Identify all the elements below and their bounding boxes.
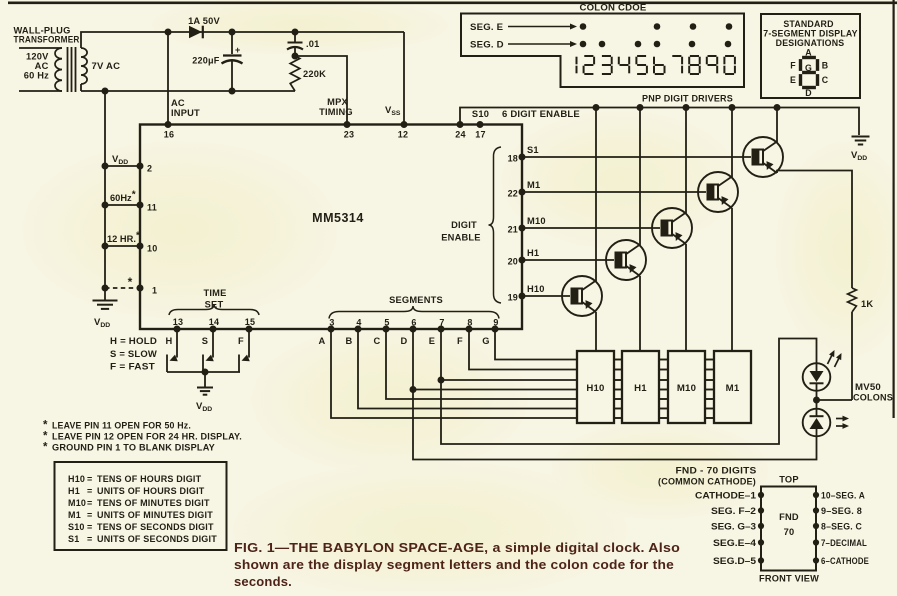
svg-text:UNITS OF SECONDS DIGIT: UNITS OF SECONDS DIGIT bbox=[97, 534, 217, 544]
node rail at M10 driver bbox=[683, 104, 690, 111]
ground time-set bbox=[204, 372, 206, 387]
wire bottom rail VDD bbox=[81, 90, 295, 92]
svg-text:220K: 220K bbox=[303, 69, 326, 79]
pin 11 left bbox=[105, 204, 140, 206]
transistor Q1 H10 PNP digit driver bbox=[562, 276, 602, 316]
pin 5 segment C bbox=[383, 326, 390, 333]
svg-text:FND: FND bbox=[779, 512, 799, 522]
pin 21 digit output M10 bbox=[519, 225, 526, 232]
svg-text:7-SEGMENT DISPLAY: 7-SEGMENT DISPLAY bbox=[763, 29, 857, 39]
FND70 pin left 526 bbox=[758, 523, 764, 529]
svg-text:S10: S10 bbox=[68, 522, 85, 532]
pin 9 segment G bbox=[492, 326, 499, 333]
switch H (time set) bbox=[176, 329, 178, 358]
FND70 pin right 526 bbox=[813, 523, 819, 529]
svg-text:=: = bbox=[87, 510, 92, 520]
svg-text:H10: H10 bbox=[586, 383, 604, 394]
wire M10 emitter to display digit bbox=[685, 244, 687, 351]
node C2/R1/MPX junction bbox=[292, 53, 299, 60]
standard 7-segment designations box bbox=[761, 14, 860, 98]
svg-text:UNITS OF HOURS DIGIT: UNITS OF HOURS DIGIT bbox=[97, 486, 205, 496]
svg-text:4: 4 bbox=[356, 318, 361, 328]
svg-text:TENS OF MINUTES DIGIT: TENS OF MINUTES DIGIT bbox=[97, 498, 210, 508]
svg-text:H10: H10 bbox=[527, 284, 545, 294]
svg-text:MPX: MPX bbox=[327, 97, 348, 107]
switch S (time set) bbox=[212, 329, 214, 358]
svg-text:FND - 70 DIGITS: FND - 70 DIGITS bbox=[676, 466, 757, 476]
FND70 pin right 560.5 bbox=[813, 557, 819, 563]
resistor R2 1K bbox=[848, 288, 857, 312]
svg-text:*: * bbox=[128, 275, 133, 289]
svg-text:COLON CDOE: COLON CDOE bbox=[579, 3, 646, 14]
svg-text:TIMING: TIMING bbox=[319, 107, 353, 117]
pin 15 time-set bbox=[246, 326, 253, 333]
pin 22 digit output M1 bbox=[519, 189, 526, 196]
wire H1 emitter to display digit bbox=[639, 276, 641, 351]
FND70 pin right 495 bbox=[813, 492, 819, 498]
svg-text:TOP: TOP bbox=[779, 475, 799, 485]
svg-text:17: 17 bbox=[475, 130, 485, 140]
svg-text:M10: M10 bbox=[677, 383, 696, 394]
svg-text:MM5314: MM5314 bbox=[312, 211, 364, 225]
resistor R1 220K bbox=[290, 56, 300, 91]
node segment E branch bbox=[438, 377, 445, 384]
designation digit 8 bbox=[802, 56, 816, 59]
svg-text:ENABLE: ENABLE bbox=[441, 233, 480, 243]
svg-text:9: 9 bbox=[493, 318, 498, 328]
LED MV50 bottom colon bbox=[803, 409, 831, 437]
svg-text:16: 16 bbox=[164, 130, 174, 140]
brace DIGIT ENABLE bbox=[489, 147, 502, 303]
svg-text:M1: M1 bbox=[527, 180, 540, 190]
wire segment E to colon LEDs bbox=[441, 339, 817, 445]
svg-text:H1: H1 bbox=[68, 486, 80, 496]
svg-text:shown are the display segment: shown are the display segment letters an… bbox=[234, 557, 674, 572]
wire 6-digit-enable rail bbox=[460, 108, 859, 136]
svg-text:20: 20 bbox=[508, 257, 518, 267]
pin 23 MPX TIMING bbox=[344, 121, 351, 128]
svg-text:60 Hz: 60 Hz bbox=[24, 71, 49, 81]
svg-text:14: 14 bbox=[209, 317, 219, 327]
wire AC input to pin 16 bbox=[167, 32, 169, 125]
svg-text:8: 8 bbox=[467, 318, 472, 328]
transformer T1 secondary winding bbox=[81, 48, 87, 84]
wire VDD chain vertical bbox=[104, 91, 106, 288]
svg-text:13: 13 bbox=[173, 317, 183, 327]
wire top rail secondary to VSS bbox=[81, 32, 404, 48]
wire segment D to colon LEDs bbox=[413, 390, 817, 460]
LED MV50 top colon bbox=[803, 363, 831, 391]
FND70 pin left 510.5 bbox=[758, 507, 764, 513]
svg-text:S10: S10 bbox=[472, 109, 489, 119]
svg-text:VSS: VSS bbox=[385, 105, 401, 117]
svg-text:VDD: VDD bbox=[94, 317, 110, 329]
svg-text:SEGMENTS: SEGMENTS bbox=[389, 295, 443, 305]
FND70 package outline bbox=[761, 487, 816, 571]
node rail at H10 driver bbox=[593, 104, 600, 111]
wire segment C bbox=[386, 329, 577, 399]
FND70 pin left 542.5 bbox=[758, 539, 764, 545]
svg-text:C: C bbox=[822, 75, 829, 85]
pin 12 VSS bbox=[401, 121, 408, 128]
transformer T1 core bbox=[67, 47, 69, 92]
svg-text:7: 7 bbox=[439, 318, 444, 328]
svg-text:1A 50V: 1A 50V bbox=[188, 16, 220, 26]
svg-text:STANDARD: STANDARD bbox=[783, 19, 833, 29]
pin 7 segment E bbox=[438, 326, 445, 333]
svg-text:=: = bbox=[87, 486, 92, 496]
svg-text:F: F bbox=[457, 336, 463, 346]
colon code dots SEG D row bbox=[580, 41, 587, 48]
svg-text:FIG. 1—THE BABYLON SPACE-AGE,: FIG. 1—THE BABYLON SPACE-AGE, a simple d… bbox=[234, 540, 680, 555]
svg-text:1K: 1K bbox=[861, 299, 873, 309]
node top rail at C1 bbox=[229, 29, 236, 36]
svg-text:C: C bbox=[374, 336, 381, 346]
pin 4 segment B bbox=[355, 326, 362, 333]
svg-text:D: D bbox=[401, 336, 408, 346]
wire MPX timing to pin 23 bbox=[295, 56, 347, 125]
svg-text:24: 24 bbox=[455, 130, 465, 140]
wire M1 emitter to display digit bbox=[731, 208, 733, 351]
ground VDD top right bbox=[852, 136, 870, 138]
pin 1 left bbox=[105, 287, 140, 289]
svg-text:COLONS: COLONS bbox=[853, 393, 893, 403]
display digit H10 bbox=[577, 351, 614, 423]
page top border rule bbox=[8, 1, 897, 4]
node bottom rail VDD branch bbox=[102, 88, 109, 95]
svg-text:H = HOLD: H = HOLD bbox=[110, 336, 157, 346]
FND70 pin right 542.5 bbox=[813, 539, 819, 545]
wire segment F bbox=[469, 329, 577, 370]
svg-text:=: = bbox=[87, 534, 92, 544]
pin 14 time-set bbox=[210, 326, 217, 333]
node between colon LEDs bbox=[813, 397, 820, 404]
svg-text:12: 12 bbox=[398, 130, 408, 140]
display digit M1 bbox=[714, 351, 751, 423]
svg-text:9–SEG. 8: 9–SEG. 8 bbox=[821, 506, 862, 516]
node bottom rail at C1 bbox=[229, 88, 236, 95]
node top rail at C2 bbox=[292, 29, 299, 36]
diode D1 1A 50V bbox=[189, 26, 202, 39]
node top rail at AC input bbox=[165, 29, 172, 36]
svg-text:+: + bbox=[235, 45, 240, 55]
svg-text:TENS OF SECONDS DIGIT: TENS OF SECONDS DIGIT bbox=[97, 522, 214, 532]
svg-text:70: 70 bbox=[784, 527, 795, 537]
display digit M10 bbox=[668, 351, 705, 423]
FND70 pin left 560.5 bbox=[758, 557, 764, 563]
svg-text:F: F bbox=[790, 61, 796, 71]
svg-text:M1: M1 bbox=[68, 510, 81, 520]
LED MV50 top emission arrows bbox=[828, 352, 834, 364]
brace TIME SET bbox=[169, 304, 259, 315]
page right border rule bbox=[892, 0, 894, 418]
pin 2 left bbox=[105, 165, 140, 167]
svg-text:MV50: MV50 bbox=[855, 382, 881, 392]
pin 16 AC INPUT bbox=[165, 121, 172, 128]
svg-text:LEAVE PIN 12 OPEN FOR 24 HR. D: LEAVE PIN 12 OPEN FOR 24 HR. DISPLAY. bbox=[52, 431, 242, 442]
brace SEGMENTS bbox=[329, 306, 499, 319]
svg-text:SEG.D–5: SEG.D–5 bbox=[713, 556, 756, 566]
svg-text:M1: M1 bbox=[726, 383, 740, 394]
wire H10 emitter to display digit bbox=[595, 312, 597, 351]
svg-text:8–SEG. C: 8–SEG. C bbox=[821, 522, 862, 532]
svg-text:=: = bbox=[87, 498, 92, 508]
pin 24 6-digit-enable bbox=[457, 121, 464, 128]
svg-text:SEG. G–3: SEG. G–3 bbox=[711, 522, 756, 532]
svg-text:M10: M10 bbox=[527, 216, 546, 226]
svg-text:A: A bbox=[319, 336, 326, 346]
transistor Q5 S1 PNP digit driver bbox=[743, 137, 783, 177]
wire base of M10 driver bbox=[522, 227, 660, 229]
wire segment B bbox=[358, 329, 577, 409]
svg-text:*: * bbox=[43, 442, 48, 454]
capacitor C1 220uF bbox=[231, 32, 233, 54]
svg-text:1: 1 bbox=[152, 286, 157, 296]
svg-text:S: S bbox=[202, 336, 208, 346]
svg-text:VDD: VDD bbox=[196, 401, 212, 413]
display digit H1 bbox=[622, 351, 659, 423]
node switch bus ground junction bbox=[202, 369, 209, 376]
svg-text:B: B bbox=[822, 61, 829, 71]
wire base of H1 driver bbox=[522, 259, 614, 261]
segment bus pass-through between digits bbox=[614, 359, 622, 361]
transistor Q2 H1 PNP digit driver bbox=[606, 240, 646, 280]
legend box digit definitions bbox=[55, 462, 227, 550]
wire switch common bus bbox=[167, 371, 240, 373]
LED MV50 bottom emission arrows bbox=[836, 418, 846, 420]
svg-text:SEG. D: SEG. D bbox=[470, 40, 504, 51]
svg-text:=: = bbox=[87, 474, 92, 484]
svg-text:CATHODE–1: CATHODE–1 bbox=[695, 491, 756, 501]
svg-text:G: G bbox=[805, 63, 812, 73]
node rail at S1 driver bbox=[774, 104, 781, 111]
svg-text:F = FAST: F = FAST bbox=[110, 362, 155, 372]
svg-text:10: 10 bbox=[147, 244, 157, 254]
svg-text:SEG. E: SEG. E bbox=[470, 22, 504, 33]
pin 10 left bbox=[105, 245, 140, 247]
transistor Q3 M10 PNP digit driver bbox=[652, 208, 692, 248]
wire base of H10 driver bbox=[522, 295, 570, 297]
svg-text:S = SLOW: S = SLOW bbox=[110, 349, 157, 359]
svg-text:E: E bbox=[790, 75, 796, 85]
wire segment D bbox=[413, 329, 577, 390]
svg-text:2: 2 bbox=[147, 164, 152, 174]
wire S1 emitter to 1K resistor bbox=[777, 171, 852, 289]
svg-text:21: 21 bbox=[508, 225, 518, 235]
pin 8 segment F bbox=[466, 326, 473, 333]
svg-text:6: 6 bbox=[411, 318, 416, 328]
svg-text:DESIGNATIONS: DESIGNATIONS bbox=[776, 38, 845, 48]
svg-text:H10: H10 bbox=[68, 474, 85, 484]
svg-text:SEG.E–4: SEG.E–4 bbox=[713, 538, 756, 548]
pin 20 digit output H1 bbox=[519, 257, 526, 264]
switch F (time set) bbox=[248, 329, 250, 358]
svg-text:7–DECIMAL: 7–DECIMAL bbox=[821, 538, 867, 548]
svg-text:LEAVE PIN 11 OPEN FOR 50 Hz.: LEAVE PIN 11 OPEN FOR 50 Hz. bbox=[52, 420, 191, 431]
svg-text:19: 19 bbox=[508, 293, 518, 303]
svg-text:H1: H1 bbox=[634, 383, 647, 394]
svg-text:G: G bbox=[482, 336, 489, 346]
svg-text:PNP DIGIT DRIVERS: PNP DIGIT DRIVERS bbox=[642, 94, 733, 104]
svg-text:UNITS OF MINUTES DIGIT: UNITS OF MINUTES DIGIT bbox=[97, 510, 213, 520]
node segment D branch bbox=[410, 386, 417, 393]
transistor Q4 M1 PNP digit driver bbox=[698, 172, 738, 212]
colon code box bbox=[461, 14, 744, 88]
colon code dots SEG E row bbox=[580, 23, 587, 30]
svg-text:7V AC: 7V AC bbox=[92, 61, 121, 72]
op-amp U1 MM5314 clock IC body bbox=[140, 125, 522, 330]
ground below VDD chain bbox=[104, 288, 106, 300]
pin 6 segment D bbox=[410, 326, 417, 333]
svg-text:(COMMON CATHODE): (COMMON CATHODE) bbox=[658, 477, 756, 487]
capacitor C2 .01 bbox=[294, 32, 296, 42]
svg-text:3: 3 bbox=[329, 318, 334, 328]
svg-text:DIGIT: DIGIT bbox=[451, 220, 477, 230]
svg-text:6–CATHODE: 6–CATHODE bbox=[821, 556, 869, 566]
wire base of S1 driver bbox=[522, 156, 751, 158]
svg-text:E: E bbox=[429, 336, 435, 346]
svg-text:23: 23 bbox=[344, 130, 354, 140]
svg-text:5: 5 bbox=[384, 318, 389, 328]
svg-text:TENS OF HOURS DIGIT: TENS OF HOURS DIGIT bbox=[97, 474, 202, 484]
svg-text:6 DIGIT ENABLE: 6 DIGIT ENABLE bbox=[502, 109, 580, 119]
svg-text:15: 15 bbox=[245, 317, 255, 327]
pin 19 digit output H10 bbox=[519, 293, 526, 300]
pin 17 S10 bbox=[477, 121, 484, 128]
node rail at M1 driver bbox=[729, 104, 736, 111]
svg-text:220μF: 220μF bbox=[192, 56, 220, 66]
pin 13 time-set bbox=[174, 326, 181, 333]
svg-text:GROUND PIN 1 TO BLANK DISPLAY: GROUND PIN 1 TO BLANK DISPLAY bbox=[52, 442, 216, 453]
colon code seven-segment digits 1234567890 bbox=[576, 57, 578, 65]
pin 3 segment A bbox=[328, 326, 335, 333]
svg-text:M10: M10 bbox=[68, 498, 86, 508]
svg-text:A: A bbox=[805, 48, 812, 58]
wire segment G bbox=[495, 329, 577, 360]
svg-text:10–SEG. A: 10–SEG. A bbox=[821, 491, 865, 501]
pin 18 digit output S1 bbox=[519, 154, 526, 161]
svg-text:D: D bbox=[805, 88, 812, 98]
svg-text:H1: H1 bbox=[527, 248, 539, 258]
svg-text:.01: .01 bbox=[306, 39, 320, 49]
node rail at H1 driver bbox=[637, 104, 644, 111]
transformer T1 primary winding bbox=[19, 47, 62, 49]
svg-text:seconds.: seconds. bbox=[234, 574, 292, 589]
svg-text:=: = bbox=[87, 522, 92, 532]
svg-text:TIME: TIME bbox=[203, 288, 226, 298]
svg-text:18: 18 bbox=[508, 154, 518, 164]
svg-text:B: B bbox=[346, 336, 353, 346]
wire base of M1 driver bbox=[522, 191, 706, 193]
svg-text:FRONT VIEW: FRONT VIEW bbox=[759, 574, 819, 584]
svg-text:INPUT: INPUT bbox=[171, 108, 200, 118]
svg-text:AC: AC bbox=[171, 98, 185, 108]
svg-text:TRANSFORMER: TRANSFORMER bbox=[14, 35, 80, 45]
FND70 pin right 510.5 bbox=[813, 507, 819, 513]
svg-text:AC: AC bbox=[35, 61, 49, 71]
wire segment A bbox=[331, 329, 577, 418]
svg-text:11: 11 bbox=[147, 203, 157, 213]
svg-text:S1: S1 bbox=[68, 534, 79, 544]
svg-text:S1: S1 bbox=[527, 145, 539, 155]
wire segment E bbox=[441, 329, 577, 380]
svg-text:F: F bbox=[238, 336, 244, 346]
svg-text:22: 22 bbox=[508, 189, 518, 199]
FND70 pin left 495 bbox=[758, 492, 764, 498]
svg-text:SEG. F–2: SEG. F–2 bbox=[711, 506, 756, 516]
svg-text:H: H bbox=[166, 336, 173, 346]
wire VSS drop to pin 12 bbox=[403, 32, 405, 125]
